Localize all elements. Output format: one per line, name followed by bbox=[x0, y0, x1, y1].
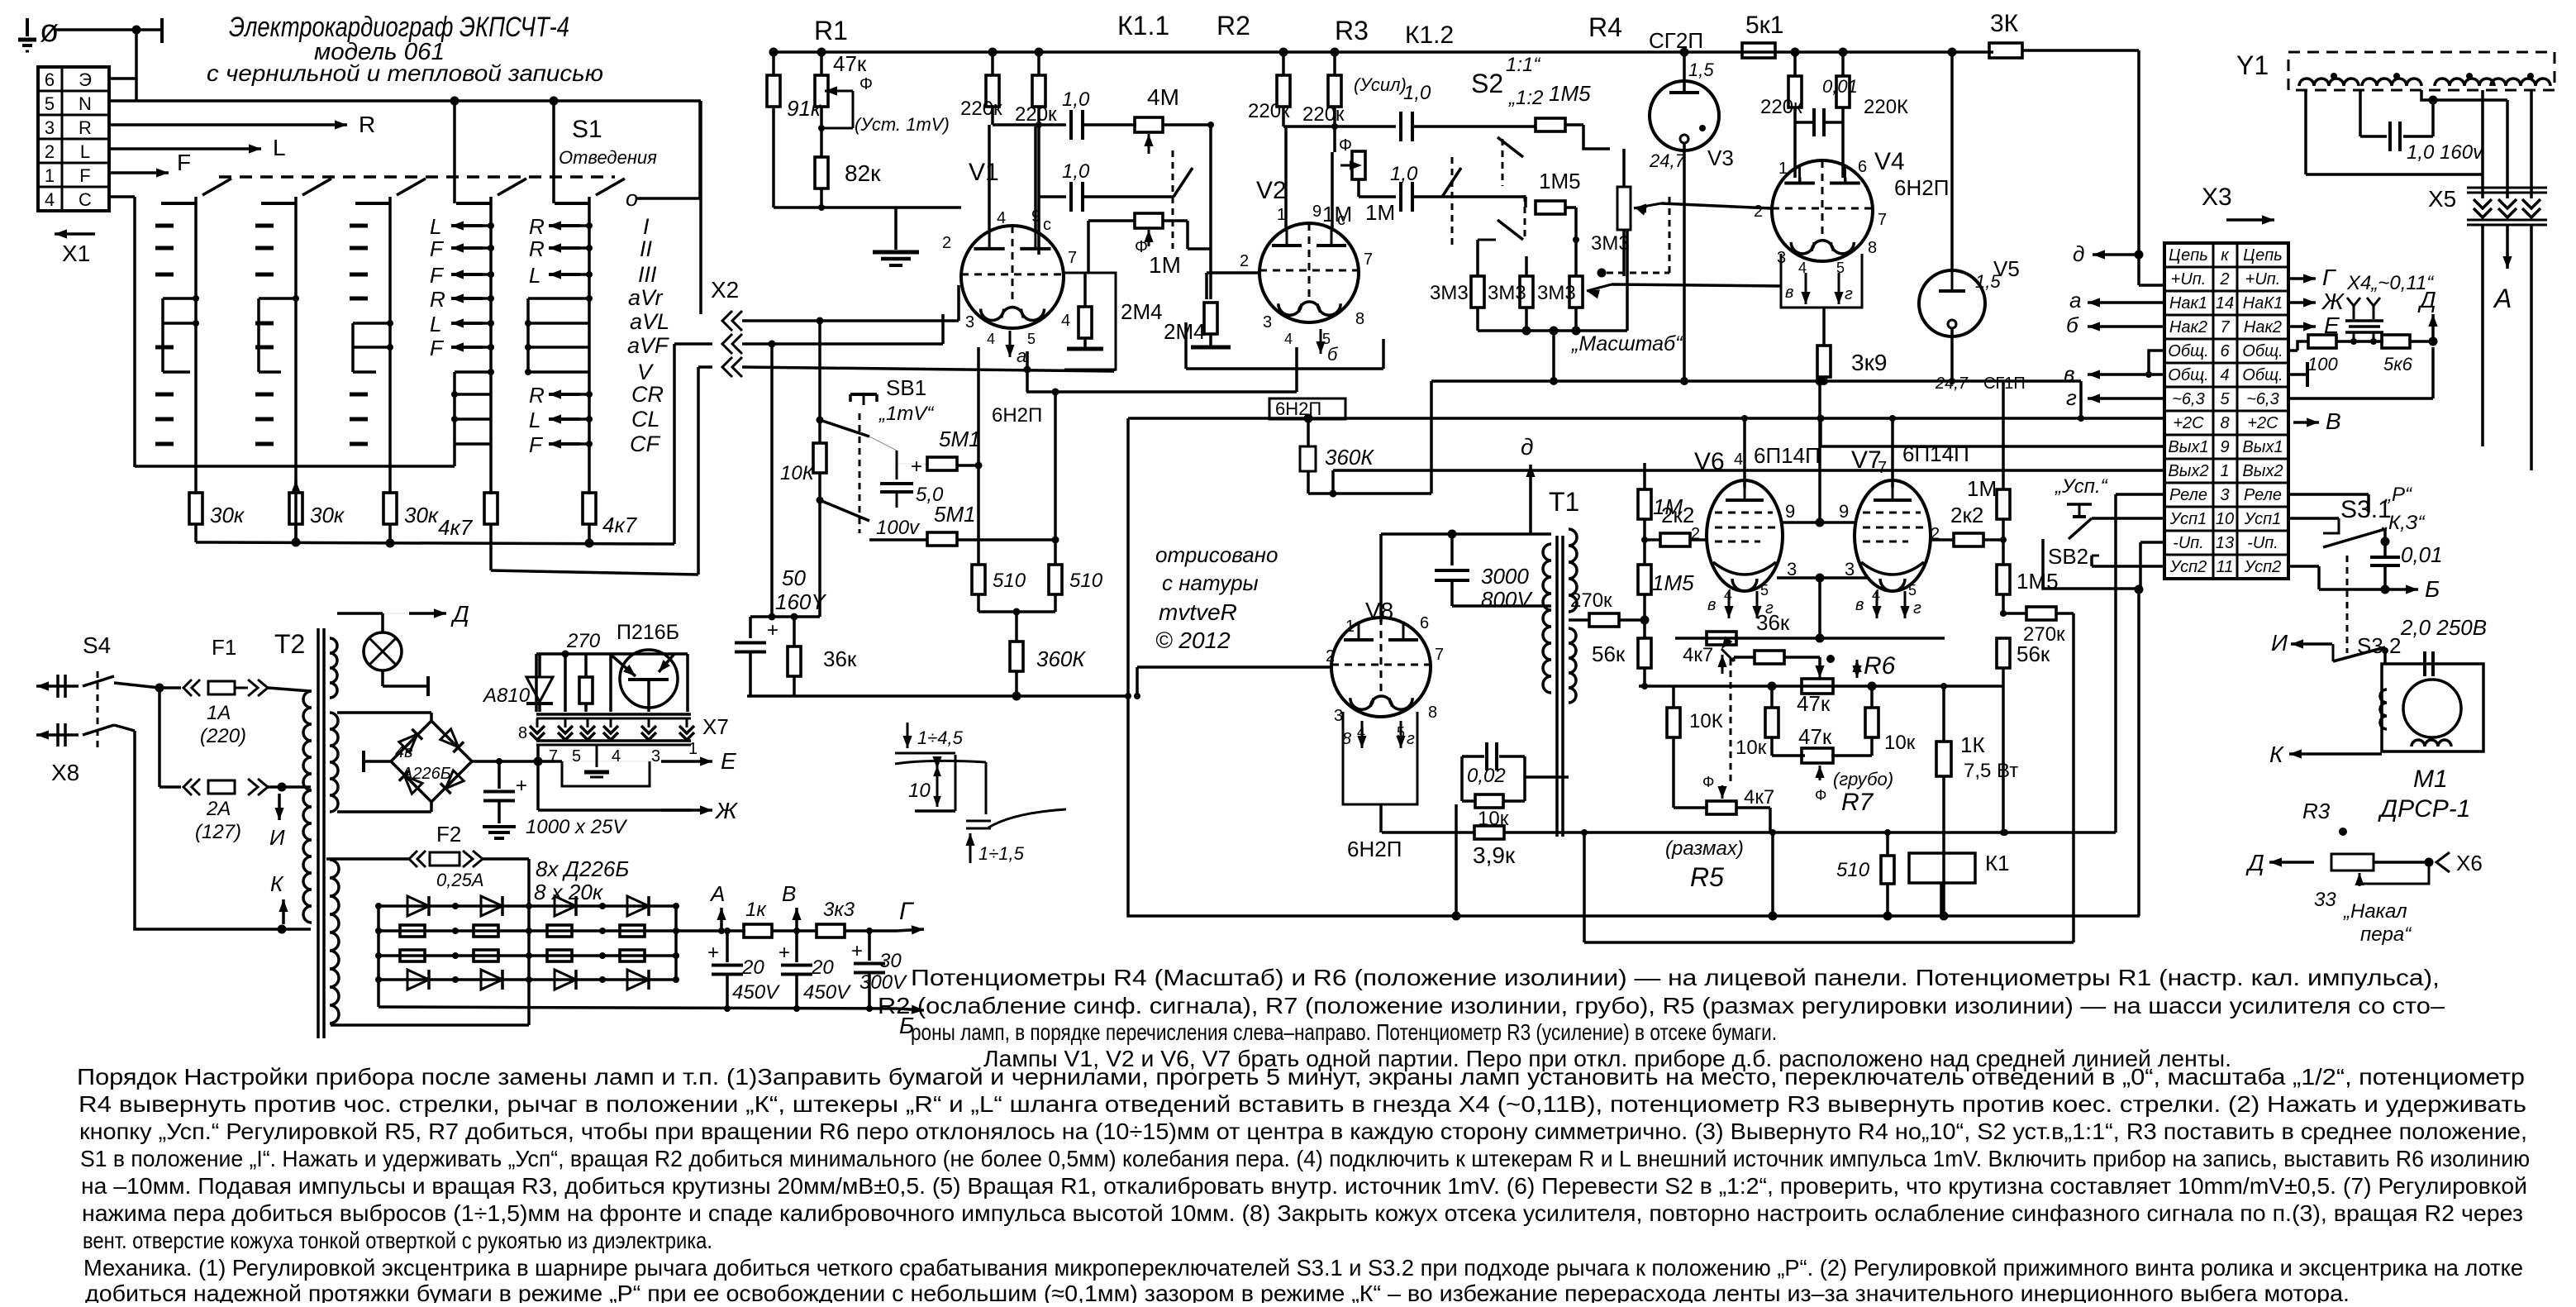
resistor 56k left bbox=[1638, 638, 1651, 668]
resistor 10k V8 bbox=[1475, 794, 1503, 808]
switch S1 contacts bbox=[255, 224, 274, 228]
svg-text:Вых1: Вых1 bbox=[2168, 438, 2208, 456]
svg-text:300V: 300V bbox=[859, 971, 907, 994]
svg-text:Φ: Φ bbox=[859, 75, 873, 93]
wire top bus bbox=[774, 50, 1993, 54]
svg-text:1М: 1М bbox=[1149, 252, 1181, 278]
resistor 1k bbox=[744, 924, 772, 937]
svg-text:10: 10 bbox=[2216, 510, 2234, 528]
wire bbox=[978, 610, 1055, 613]
svg-text:А: А bbox=[709, 881, 725, 906]
svg-text:(Усил): (Усил) bbox=[1354, 74, 1407, 95]
svg-text:270к: 270к bbox=[2023, 623, 2065, 646]
switch S1 bracket col1 bbox=[161, 298, 164, 372]
svg-text:4: 4 bbox=[612, 747, 621, 766]
svg-text:7: 7 bbox=[2220, 318, 2230, 336]
svg-text:220к: 220к bbox=[1015, 103, 1057, 126]
svg-text:2А: 2А bbox=[206, 798, 231, 820]
svg-text:36к: 36к bbox=[1756, 610, 1790, 635]
svg-text:F: F bbox=[177, 150, 191, 175]
svg-text:8: 8 bbox=[1868, 239, 1877, 257]
wire 50V node bbox=[770, 344, 774, 617]
switch S2 contact 2 bbox=[1498, 220, 1523, 240]
transformer T2 winding grid bbox=[330, 860, 339, 1023]
svg-text:91к: 91к bbox=[787, 96, 822, 121]
svg-text:в: в bbox=[1785, 284, 1793, 302]
svg-text:V3: V3 bbox=[1707, 145, 1734, 170]
switch S1 wafer bbox=[588, 197, 591, 494]
svg-text:4: 4 bbox=[45, 189, 55, 210]
svg-text:+: + bbox=[911, 456, 922, 478]
svg-text:„Масштаб“: „Масштаб“ bbox=[1571, 332, 1683, 355]
svg-text:F: F bbox=[430, 336, 445, 360]
svg-text:6: 6 bbox=[1420, 614, 1429, 632]
svg-text:10К: 10К bbox=[780, 462, 816, 484]
svg-text:СГ2П: СГ2П bbox=[1649, 28, 1703, 53]
arrows V8 pins bbox=[1361, 721, 1364, 748]
svg-text:ø: ø bbox=[40, 14, 59, 49]
svg-text:а: а bbox=[1017, 346, 1026, 366]
svg-text:Φ: Φ bbox=[1815, 787, 1826, 804]
svg-text:6П14П: 6П14П bbox=[1902, 441, 1969, 466]
svg-text:L: L bbox=[273, 135, 286, 160]
svg-text:с чернильной и тепловой запись: с чернильной и тепловой записью bbox=[207, 60, 603, 86]
wire to Vyh2 bbox=[2530, 225, 2533, 470]
switch S1 bracket col3 bbox=[351, 323, 355, 372]
resistor 360K (2) bbox=[1304, 414, 1313, 423]
svg-text:г: г bbox=[2066, 385, 2077, 410]
svg-text:L: L bbox=[529, 263, 540, 288]
resistor 5M1 (2) bbox=[927, 532, 957, 546]
resistor 30k (3) bbox=[383, 493, 397, 524]
svg-text:S1 в положение „I“. Нажать: S1 в положение „I“. Нажать и удерживать … bbox=[80, 1146, 2530, 1171]
svg-text:R2: R2 bbox=[1217, 11, 1250, 41]
svg-text:100v: 100v bbox=[876, 517, 921, 539]
svg-text:1: 1 bbox=[688, 740, 698, 758]
transistor Q1 P216B bbox=[620, 650, 678, 708]
svg-text:V: V bbox=[637, 360, 655, 384]
svg-text:+2С: +2С bbox=[2173, 414, 2204, 432]
svg-text:4к7: 4к7 bbox=[602, 513, 638, 537]
svg-text:1,0: 1,0 bbox=[1403, 82, 1431, 104]
switch S3.2 bbox=[2346, 556, 2349, 653]
wire node d bbox=[2135, 250, 2144, 260]
wire bbox=[1163, 219, 1188, 222]
svg-text:3К: 3К bbox=[1990, 10, 2019, 37]
resistor 220k (6) bbox=[1836, 76, 1850, 107]
svg-text:50: 50 bbox=[782, 565, 806, 590]
svg-text:CR: CR bbox=[631, 382, 664, 407]
svg-text:360К: 360К bbox=[1325, 445, 1374, 470]
wire 36k bus bbox=[1675, 637, 1945, 640]
svg-text:Нак2: Нак2 bbox=[2169, 318, 2207, 336]
svg-text:510: 510 bbox=[1836, 859, 1870, 881]
svg-text:R: R bbox=[359, 112, 375, 137]
wire Rele down bbox=[2116, 493, 2164, 496]
svg-text:Вых2: Вых2 bbox=[2242, 462, 2283, 480]
svg-text:4: 4 bbox=[997, 209, 1006, 227]
wire Y1 tap2 bbox=[2421, 90, 2433, 100]
svg-text:нажима пера добиться выброс: нажима пера добиться выбросов (1÷1,5)мм … bbox=[82, 1200, 2523, 1226]
svg-text:Механика. (1) Регулировкой э: Механика. (1) Регулировкой эксцентрика в… bbox=[83, 1255, 2523, 1281]
svg-text:1:1“: 1:1“ bbox=[1506, 54, 1541, 76]
svg-text:47к: 47к bbox=[833, 51, 867, 76]
box T2 left bbox=[135, 731, 311, 929]
svg-text:к: к bbox=[2221, 246, 2230, 265]
resistor 220k (3) bbox=[1277, 75, 1290, 107]
svg-text:aVL: aVL bbox=[630, 309, 669, 334]
wire bbox=[1163, 123, 1211, 126]
resistor 30k (2) bbox=[289, 493, 302, 524]
wire to X2 b bbox=[489, 524, 493, 570]
svg-text:3М3: 3М3 bbox=[1430, 282, 1469, 304]
svg-text:3: 3 bbox=[1263, 313, 1272, 332]
svg-text:пера“: пера“ bbox=[2360, 923, 2412, 946]
wire X2 bottom bbox=[742, 367, 1114, 371]
svg-text:L: L bbox=[80, 141, 90, 162]
svg-text:НаК1: НаК1 bbox=[2243, 294, 2283, 312]
svg-text:7: 7 bbox=[1435, 646, 1444, 664]
svg-text:X2: X2 bbox=[711, 277, 739, 303]
svg-text:aVr: aVr bbox=[628, 285, 664, 310]
svg-text:3М3: 3М3 bbox=[1488, 282, 1526, 304]
svg-text:2: 2 bbox=[1326, 647, 1335, 665]
svg-text:Д: Д bbox=[2417, 287, 2436, 312]
svg-text:F: F bbox=[430, 236, 445, 261]
switch S1 dashed bus bbox=[219, 175, 615, 179]
wire node C bbox=[109, 195, 135, 198]
svg-text:0,01: 0,01 bbox=[2401, 542, 2443, 567]
tube V4 bbox=[1772, 160, 1873, 261]
svg-text:Порядок Настройки прибора п: Порядок Настройки прибора после замены л… bbox=[77, 1064, 2525, 1090]
svg-text:mvtveR: mvtveR bbox=[1159, 599, 1237, 625]
svg-text:3М3: 3М3 bbox=[1537, 282, 1576, 304]
svg-text:2: 2 bbox=[942, 234, 951, 252]
wire V2 grid bbox=[1207, 271, 1259, 274]
svg-text:L: L bbox=[430, 312, 441, 336]
wire node F bbox=[109, 171, 169, 174]
svg-text:Г: Г bbox=[2322, 265, 2336, 290]
svg-text:R1: R1 bbox=[814, 16, 848, 45]
transformer T2 winding bridge bbox=[330, 713, 338, 812]
resistor 10k mid bbox=[1765, 708, 1778, 737]
svg-text:5М1: 5М1 bbox=[939, 427, 981, 451]
switch S1 contacts bbox=[350, 224, 368, 228]
svg-text:X7: X7 bbox=[702, 714, 729, 739]
svg-text:г: г bbox=[1913, 599, 1921, 618]
wire N drops bbox=[450, 97, 459, 106]
fuse F2a bbox=[160, 785, 181, 789]
wire R5 box bbox=[1583, 832, 1586, 942]
svg-text:Отведения: Отведения bbox=[559, 147, 657, 168]
svg-text:2,0 250В: 2,0 250В bbox=[2400, 615, 2487, 640]
wire bbox=[158, 688, 161, 787]
shield box V4 bbox=[1781, 254, 1862, 308]
svg-text:г: г bbox=[1845, 285, 1853, 303]
arrow b bbox=[1320, 329, 1322, 354]
label I K bbox=[278, 794, 281, 820]
svg-text:1М: 1М bbox=[1653, 494, 1683, 519]
svg-text:7: 7 bbox=[1878, 459, 1887, 477]
svg-text:V5: V5 bbox=[1993, 256, 2020, 281]
svg-text:220к: 220к bbox=[1302, 103, 1345, 126]
tube V1 bbox=[961, 226, 1064, 328]
svg-text:А: А bbox=[2493, 284, 2512, 313]
resistor 3K9 bbox=[1822, 308, 1826, 346]
svg-text:6Н2П: 6Н2П bbox=[992, 404, 1042, 427]
connector X4 jacks bbox=[2353, 306, 2355, 319]
svg-text:0,25А: 0,25А bbox=[436, 870, 484, 890]
svg-text:SB2: SB2 bbox=[2048, 544, 2088, 569]
tube V6 bbox=[1707, 480, 1783, 591]
svg-text:5: 5 bbox=[45, 93, 55, 114]
svg-text:+: + bbox=[516, 775, 527, 797]
svg-text:Y1: Y1 bbox=[2236, 50, 2269, 80]
svg-text:Ж: Ж bbox=[2321, 289, 2345, 314]
resistor 2M4 (2) bbox=[1204, 303, 1217, 334]
wire Usp1 to SB2 bbox=[2092, 517, 2164, 520]
transformer T2 primary bbox=[303, 691, 312, 923]
arrow A bbox=[2506, 225, 2509, 269]
svg-text:270: 270 bbox=[566, 630, 601, 652]
svg-text:1,0: 1,0 bbox=[1062, 160, 1090, 183]
svg-text:1,0: 1,0 bbox=[1390, 163, 1418, 185]
wire to rail 2 bbox=[1308, 492, 1431, 495]
svg-text:2: 2 bbox=[1240, 252, 1249, 270]
svg-text:36к: 36к bbox=[823, 646, 857, 671]
svg-text:Реле: Реле bbox=[2169, 486, 2207, 504]
svg-text:В: В bbox=[2326, 408, 2341, 434]
svg-text:5: 5 bbox=[1760, 582, 1769, 599]
svg-text:Φ: Φ bbox=[1339, 136, 1352, 155]
arrow E bbox=[650, 761, 702, 762]
svg-text:aVF: aVF bbox=[627, 333, 669, 358]
svg-text:30: 30 bbox=[879, 950, 902, 972]
switch S1 wafer bbox=[294, 197, 298, 494]
svg-text:Реле: Реле bbox=[2244, 486, 2282, 504]
svg-text:7: 7 bbox=[1364, 250, 1373, 269]
svg-text:вент. отверстие кожуха тонко: вент. отверстие кожуха тонкой отверткой … bbox=[83, 1228, 712, 1253]
svg-text:4в: 4в bbox=[395, 743, 413, 761]
potentiometer 1M bbox=[1135, 213, 1163, 228]
svg-text:+Uп.: +Uп. bbox=[2245, 270, 2281, 289]
svg-text:3: 3 bbox=[1334, 707, 1343, 725]
resistor 3k3 bbox=[817, 924, 845, 937]
svg-text:CL: CL bbox=[631, 407, 660, 432]
svg-text:4к7: 4к7 bbox=[438, 515, 474, 540]
wire to X3 bbox=[2022, 49, 2139, 52]
capacitor 0,01 bbox=[1795, 121, 1815, 124]
lamp bbox=[364, 632, 402, 670]
svg-text:4: 4 bbox=[1724, 587, 1732, 603]
svg-text:3М3: 3М3 bbox=[1591, 232, 1630, 255]
svg-text:Г: Г bbox=[899, 898, 915, 925]
svg-text:13: 13 bbox=[2216, 534, 2234, 552]
svg-text:X8: X8 bbox=[51, 760, 79, 785]
resistor 82k bbox=[815, 157, 828, 188]
svg-text:1000 x 25V: 1000 x 25V bbox=[526, 816, 627, 838]
svg-text:I: I bbox=[643, 214, 650, 239]
svg-text:9: 9 bbox=[1312, 203, 1321, 221]
capacitor 30 300V bbox=[868, 931, 871, 961]
svg-text:4: 4 bbox=[1872, 587, 1880, 603]
svg-text:V4: V4 bbox=[1874, 148, 1905, 175]
capacitor 20 450V (1) bbox=[726, 931, 729, 962]
svg-text:X5: X5 bbox=[2428, 186, 2456, 212]
wire V1 anode bbox=[988, 125, 991, 231]
resistor 1M5 (2) bbox=[1536, 201, 1565, 214]
svg-text:3: 3 bbox=[651, 747, 660, 766]
wire node L bbox=[109, 147, 261, 150]
svg-text:3: 3 bbox=[965, 313, 974, 332]
svg-text:2: 2 bbox=[1754, 203, 1763, 221]
svg-text:30к: 30к bbox=[210, 503, 245, 527]
wire Y1 right ends bbox=[2481, 90, 2484, 198]
switch S1 wafer bbox=[194, 197, 198, 494]
potentiometer 4M bbox=[1135, 117, 1163, 132]
svg-text:S1: S1 bbox=[572, 116, 602, 143]
svg-text:V1: V1 bbox=[969, 159, 999, 186]
svg-text:160Y: 160Y bbox=[775, 589, 826, 614]
wire to A bbox=[2433, 98, 2507, 102]
tube V2 bbox=[1259, 223, 1359, 322]
svg-text:К1.2: К1.2 bbox=[1405, 21, 1454, 49]
resistor 270 bbox=[579, 677, 593, 704]
svg-text:7: 7 bbox=[1068, 249, 1077, 267]
svg-text:7,5 Вт: 7,5 Вт bbox=[1964, 760, 2018, 782]
svg-text:1М5: 1М5 bbox=[1549, 81, 1591, 106]
svg-text:Общ.: Общ. bbox=[2168, 342, 2208, 360]
arrow d T1 bbox=[1529, 465, 1532, 533]
svg-text:Д: Д bbox=[450, 601, 469, 627]
svg-text:6Н2П: 6Н2П bbox=[1275, 398, 1321, 419]
tube V5 bbox=[1919, 270, 1985, 336]
wire top bus right bbox=[1791, 48, 1800, 57]
svg-text:R4: R4 bbox=[1588, 12, 1622, 42]
rectifier ladder bbox=[377, 906, 380, 980]
wire to B bbox=[2288, 565, 2319, 568]
wire S2 bottom bus bbox=[1476, 308, 1479, 331]
svg-text:5: 5 bbox=[2220, 390, 2230, 408]
svg-text:2: 2 bbox=[2219, 270, 2229, 289]
svg-text:X6: X6 bbox=[2456, 851, 2483, 875]
resistor 5k6 bbox=[2336, 340, 2383, 343]
arrow a bbox=[1009, 331, 1012, 357]
wire Usp2 bbox=[2092, 565, 2164, 568]
shield box V8 bbox=[1343, 712, 1417, 804]
svg-text:R: R bbox=[529, 214, 545, 239]
wire V4 grid to pot bbox=[1661, 203, 1771, 208]
resistor 56k right bbox=[1997, 638, 2010, 668]
switch S1 bracket col2 bbox=[257, 298, 260, 372]
svg-text:F2: F2 bbox=[436, 822, 461, 847]
svg-text:2М4: 2М4 bbox=[1121, 299, 1163, 324]
svg-text:7: 7 bbox=[549, 747, 558, 766]
resistor 220k (5) bbox=[1788, 76, 1802, 107]
resistor 10k left bbox=[1667, 708, 1680, 737]
capacitor 0,02 bbox=[1460, 756, 1464, 801]
svg-text:R: R bbox=[529, 383, 545, 408]
svg-text:R5: R5 bbox=[1690, 862, 1724, 892]
svg-text:C: C bbox=[79, 189, 92, 210]
resistor 1M5 (1) bbox=[1536, 118, 1565, 131]
svg-text:„Накал: „Накал bbox=[2343, 900, 2407, 923]
ground bbox=[894, 207, 898, 250]
potentiometer 3M3 (3) bbox=[1569, 276, 1583, 308]
svg-text:10к: 10к bbox=[1736, 737, 1767, 759]
resistor 5M1 (1) bbox=[927, 457, 957, 470]
svg-text:8: 8 bbox=[2220, 414, 2229, 432]
wire V6 top bbox=[1743, 418, 1746, 488]
wire grid bottom bbox=[377, 980, 380, 1007]
svg-text:3000: 3000 bbox=[1481, 564, 1529, 589]
wire -Up down bbox=[2140, 541, 2164, 544]
capacitor 1,0 (4) bbox=[1359, 195, 1396, 198]
svg-text:R: R bbox=[430, 287, 445, 312]
svg-text:Вых1: Вых1 bbox=[2242, 438, 2283, 456]
svg-text:Общ.: Общ. bbox=[2242, 366, 2283, 384]
capacitor 1000x25V bbox=[498, 761, 501, 789]
tube V8 bbox=[1331, 618, 1431, 717]
svg-text:R2 (ослабление синф. сигнала): R2 (ослабление синф. сигнала), R7 (полож… bbox=[878, 993, 2445, 1018]
svg-text:„1mV“: „1mV“ bbox=[879, 403, 935, 425]
resistor 91k bbox=[767, 75, 780, 107]
svg-text:V6: V6 bbox=[1694, 448, 1725, 475]
svg-text:4: 4 bbox=[2220, 366, 2229, 384]
potentiometer R3 1M bbox=[1352, 151, 1365, 179]
resistor 3,9k bbox=[1474, 826, 1504, 839]
wire bbox=[1283, 125, 1396, 128]
svg-text:8: 8 bbox=[1355, 310, 1364, 328]
motor M1 bbox=[2382, 664, 2483, 751]
wire node N bbox=[109, 99, 701, 103]
svg-text:3: 3 bbox=[2220, 486, 2229, 504]
arrows e g V4 bbox=[1805, 273, 1807, 304]
connector X1 label bbox=[55, 232, 95, 236]
svg-text:(Уст. 1mV): (Уст. 1mV) bbox=[855, 114, 950, 135]
arrow G bbox=[845, 929, 897, 933]
resistor 1M right bbox=[1997, 489, 2010, 519]
resistor 4k7 (1) bbox=[484, 493, 498, 524]
arrow B out bbox=[897, 1009, 924, 1010]
svg-text:1,5: 1,5 bbox=[1688, 60, 1714, 80]
svg-text:К1.1: К1.1 bbox=[1117, 11, 1169, 41]
resistor 3M3 (2) bbox=[1520, 276, 1533, 308]
resistor 2M4 (1) bbox=[1078, 307, 1092, 338]
wire bbox=[536, 745, 540, 810]
svg-text:220к: 220к bbox=[960, 98, 1002, 120]
svg-text:Ж: Ж bbox=[714, 798, 739, 823]
svg-text:220К: 220К bbox=[1864, 96, 1908, 118]
svg-text:0,01: 0,01 bbox=[1822, 76, 1858, 97]
svg-text:F: F bbox=[79, 165, 90, 186]
svg-text:33: 33 bbox=[2314, 889, 2336, 911]
wire V2 anode bbox=[1284, 126, 1288, 231]
filter B bbox=[773, 929, 817, 933]
svg-text:S4: S4 bbox=[83, 632, 111, 658]
wire to Vyh1 bbox=[2481, 225, 2484, 446]
svg-text:510: 510 bbox=[993, 570, 1026, 592]
svg-text:R4 вывернуть против чос. стр: R4 вывернуть против чос. стрелки, рычаг … bbox=[79, 1091, 2526, 1117]
svg-text:450V: 450V bbox=[732, 981, 780, 1004]
svg-text:3: 3 bbox=[45, 117, 55, 138]
connector X6 bbox=[2436, 852, 2450, 872]
svg-text:на –10мм. Подавая импульсы: на –10мм. Подавая импульсы и вращая R3, … bbox=[81, 1173, 2527, 1199]
svg-text:SB1: SB1 bbox=[886, 375, 926, 400]
svg-text:2к2: 2к2 bbox=[1950, 503, 1983, 527]
svg-text:F: F bbox=[430, 263, 445, 288]
svg-text:© 2012: © 2012 bbox=[1155, 627, 1231, 653]
